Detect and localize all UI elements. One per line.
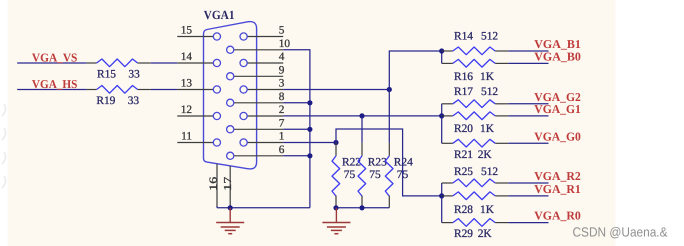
pin 12 of VGA1 <box>177 104 220 120</box>
pin 1 of VGA1 <box>240 131 284 147</box>
resistor R19 <box>87 86 151 107</box>
wire VGA_VS to R15 <box>17 62 87 64</box>
svg-text:VGA_R0: VGA_R0 <box>534 209 581 223</box>
svg-text:R28: R28 <box>454 204 473 216</box>
svg-text:2: 2 <box>279 104 285 116</box>
resistor R16 <box>442 59 509 82</box>
net label VGA_HS <box>32 77 78 91</box>
wire network bus <box>441 183 443 223</box>
junction network feed <box>439 113 444 118</box>
svg-text:R14: R14 <box>454 31 473 43</box>
pin 9 of VGA1 <box>227 64 285 80</box>
svg-text:6: 6 <box>279 144 285 156</box>
junction pin 3 / blue feed / R24 <box>387 87 392 92</box>
junction pin 8 / ground vertical <box>307 100 312 105</box>
pin 6 of VGA1 <box>227 144 285 160</box>
svg-text:11: 11 <box>181 131 192 143</box>
ground bus wire (terminators) <box>336 207 389 209</box>
svg-text:512: 512 <box>481 86 498 98</box>
wire output VGA_R2 <box>508 182 548 184</box>
pin 13 of VGA1 <box>177 78 220 94</box>
svg-text:R16: R16 <box>454 71 473 83</box>
ground bus wire (left) <box>217 207 310 209</box>
svg-text:VGA_VS: VGA_VS <box>32 51 78 65</box>
svg-text:15: 15 <box>181 25 193 37</box>
svg-text:VGA_R1: VGA_R1 <box>534 182 581 196</box>
pin 15 of VGA1 <box>177 25 220 41</box>
wire pin 8 stub <box>283 102 310 104</box>
net label VGA_VS <box>32 51 78 65</box>
ground symbol (terminators) <box>322 208 350 234</box>
svg-text:1K: 1K <box>480 204 495 216</box>
junction pin 1 / R22 / red feed <box>333 140 338 145</box>
net label VGA_G0 <box>534 129 581 143</box>
net label VGA_B0 <box>534 49 581 63</box>
svg-text:R29: R29 <box>454 228 473 240</box>
wire pin 17 down to ground bus <box>229 205 231 208</box>
svg-text:12: 12 <box>181 104 193 116</box>
wire network bus <box>441 104 443 144</box>
connector VGA1 designator label <box>204 8 235 22</box>
resistor R22 <box>332 143 361 208</box>
net label VGA_G1 <box>534 102 581 116</box>
wire R23 top lead <box>361 116 363 143</box>
wire R19 to pin 13 <box>151 89 178 91</box>
wire output VGA_G1 <box>508 115 548 117</box>
resistor R15 <box>87 59 151 80</box>
net label VGA_R0 <box>534 209 581 223</box>
svg-text:8: 8 <box>279 91 285 103</box>
svg-text:VGA_HS: VGA_HS <box>32 77 78 91</box>
wire output VGA_B0 <box>508 62 548 64</box>
svg-text:17: 17 <box>223 177 234 191</box>
svg-text:1: 1 <box>279 131 285 143</box>
svg-text:R23: R23 <box>368 156 387 168</box>
junction R22 bottom / ground <box>333 205 338 210</box>
resistor R17 <box>442 86 509 107</box>
ground symbol (connector shield) <box>216 208 244 234</box>
faint side watermark <box>2 104 6 188</box>
svg-text:R19: R19 <box>96 95 115 107</box>
svg-text:512: 512 <box>481 31 498 43</box>
resistor R25 <box>442 166 509 187</box>
junction network feed <box>439 193 444 198</box>
junction pin 6 / ground vertical <box>307 153 312 158</box>
resistor R24 <box>385 143 413 208</box>
pin 2 of VGA1 <box>240 104 285 120</box>
resistor R28 <box>442 192 509 216</box>
svg-text:75: 75 <box>344 169 356 181</box>
svg-text:13: 13 <box>181 78 193 90</box>
CSDN watermark text <box>573 225 668 240</box>
svg-text:75: 75 <box>369 169 381 181</box>
wire output VGA_G2 <box>508 103 548 105</box>
svg-text:VGA_G1: VGA_G1 <box>534 102 581 116</box>
pin 5 of VGA1 <box>240 25 285 41</box>
wire pin 6 stub <box>283 155 310 157</box>
wire R15 to pin 14 <box>151 62 178 64</box>
svg-text:7: 7 <box>279 117 285 129</box>
svg-text:9: 9 <box>279 64 285 76</box>
wire blue feed vertical (pin3 up to B network) <box>389 51 441 90</box>
wire R24 top lead <box>388 90 390 143</box>
net label VGA_R1 <box>534 182 581 196</box>
svg-text:R17: R17 <box>454 86 473 98</box>
wire output VGA_G0 <box>508 142 548 144</box>
wire output VGA_R0 <box>508 222 548 224</box>
pin 4 of VGA1 <box>240 51 285 67</box>
svg-text:10: 10 <box>279 38 291 50</box>
svg-text:VGA1: VGA1 <box>204 8 235 22</box>
resistor R23 <box>358 143 387 208</box>
svg-text:VGA_G0: VGA_G0 <box>534 129 581 143</box>
pin 7 of VGA1 <box>227 117 285 133</box>
resistor R20 <box>442 112 509 135</box>
svg-text:R25: R25 <box>454 166 473 178</box>
wire pin 3 (blue video) stub <box>283 89 389 91</box>
wire pin 1 to R22 top <box>283 142 336 144</box>
svg-text:1K: 1K <box>480 71 495 83</box>
wire pin 10 to ground vertical <box>283 50 310 208</box>
net label VGA_G2 <box>534 90 581 104</box>
svg-text:3: 3 <box>279 78 285 90</box>
wire pin 7 stub <box>283 128 310 130</box>
svg-text:R24: R24 <box>394 156 413 168</box>
pin 14 of VGA1 <box>177 51 220 67</box>
pin 3 of VGA1 <box>240 78 285 94</box>
svg-text:33: 33 <box>128 95 140 107</box>
net label VGA_R2 <box>534 169 581 183</box>
resistor R14 <box>442 31 509 55</box>
svg-text:R20: R20 <box>454 123 473 135</box>
svg-text:VGA_B0: VGA_B0 <box>534 49 581 63</box>
wire network bus <box>441 51 443 63</box>
junction pin 7 / ground vertical <box>307 127 312 132</box>
junction pin 17 / ground bus <box>228 205 233 210</box>
svg-text:R21: R21 <box>454 149 473 161</box>
net label VGA_B1 <box>534 37 581 51</box>
pin 11 of VGA1 <box>177 131 220 147</box>
wire output VGA_R1 <box>508 195 548 197</box>
wire pin 2 (green) run <box>283 115 442 117</box>
pin 8 of VGA1 <box>227 91 285 107</box>
wire VGA_HS to R19 <box>17 89 87 91</box>
pin 17 of VGA1 <box>223 166 234 205</box>
resistor R29 <box>442 219 509 240</box>
pin 16 of VGA1 <box>208 164 219 207</box>
svg-text:14: 14 <box>181 51 193 63</box>
resistor R21 <box>442 139 509 161</box>
junction R23 bottom / ground bus <box>359 205 364 210</box>
svg-text:16: 16 <box>208 177 219 191</box>
pin 10 of VGA1 <box>227 38 291 54</box>
wire red feed (pin1 over to R network) <box>336 129 442 196</box>
svg-text:CSDN @Uaena.&: CSDN @Uaena.& <box>573 225 668 240</box>
connector VGA1 body <box>204 22 257 169</box>
svg-text:33: 33 <box>128 68 140 80</box>
svg-text:2K: 2K <box>478 228 493 240</box>
junction network feed <box>439 48 444 53</box>
svg-text:512: 512 <box>481 166 498 178</box>
wire output VGA_B1 <box>508 50 548 52</box>
svg-text:1K: 1K <box>480 123 495 135</box>
svg-text:4: 4 <box>279 51 285 63</box>
junction R23 top on green wire <box>359 113 364 118</box>
svg-text:VGA_R2: VGA_R2 <box>534 169 581 183</box>
svg-text:5: 5 <box>279 25 285 37</box>
svg-text:R15: R15 <box>97 68 116 80</box>
wire pin 16 down to ground bus <box>216 206 218 208</box>
svg-text:2K: 2K <box>478 149 493 161</box>
